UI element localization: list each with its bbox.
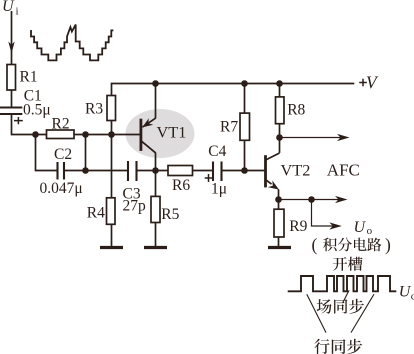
svg-text:27p: 27p [123, 197, 147, 214]
svg-text:U: U [2, 0, 15, 15]
svg-text:0.5μ: 0.5μ [23, 101, 51, 118]
svg-text:R8: R8 [287, 102, 305, 119]
svg-text:R9: R9 [289, 218, 307, 235]
svg-text:1μ: 1μ [211, 180, 227, 197]
svg-text:o: o [367, 225, 373, 237]
svg-text:): ) [385, 234, 391, 254]
svg-text:0.047μ: 0.047μ [40, 180, 83, 197]
svg-text:U: U [354, 219, 367, 236]
svg-text:R6: R6 [172, 177, 190, 194]
svg-text:AFC: AFC [327, 161, 360, 180]
svg-text:C4: C4 [208, 143, 226, 160]
svg-text:C2: C2 [54, 146, 72, 163]
svg-text:R7: R7 [220, 119, 238, 136]
svg-text:R2: R2 [52, 116, 70, 133]
svg-text:(: ( [312, 234, 318, 254]
svg-text:R4: R4 [87, 204, 105, 221]
svg-text:V: V [366, 73, 379, 93]
svg-text:R1: R1 [20, 68, 38, 85]
svg-text:VT1: VT1 [157, 123, 187, 142]
svg-text:VT2: VT2 [281, 161, 311, 180]
svg-text:i: i [16, 5, 19, 17]
svg-text:R5: R5 [161, 206, 179, 223]
svg-text:R3: R3 [85, 100, 103, 117]
